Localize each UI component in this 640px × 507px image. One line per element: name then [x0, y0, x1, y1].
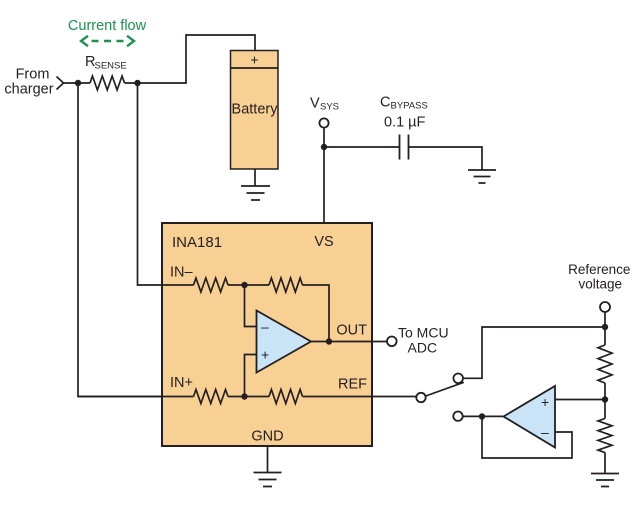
- ground capacitor: [468, 170, 496, 183]
- svg-text:IN–: IN–: [170, 265, 194, 281]
- svg-text:charger: charger: [4, 82, 53, 98]
- svg-text:INA181: INA181: [172, 234, 222, 251]
- ground INA181: [254, 473, 282, 487]
- svg-text:BYPASS: BYPASS: [391, 101, 428, 112]
- capacitor CBYPASS: [400, 135, 409, 160]
- resistor divider top: [598, 345, 612, 383]
- wire noninverting input: [245, 355, 257, 397]
- wire feedback to OUT: [303, 285, 330, 342]
- battery B1: [231, 51, 279, 170]
- wire ref terminal down: [604, 312, 606, 345]
- switch terminal top: [453, 374, 463, 384]
- svg-text:VS: VS: [314, 234, 333, 250]
- terminal VSYS: [319, 118, 328, 127]
- svg-text:+: +: [261, 347, 269, 363]
- node OUT junction: [326, 338, 332, 344]
- wire REF line: [78, 396, 417, 398]
- node divider top junction: [602, 324, 608, 330]
- wire VSYS to capacitor: [324, 146, 400, 148]
- svg-text:–: –: [541, 424, 549, 440]
- svg-text:From: From: [16, 67, 50, 83]
- svg-text:C: C: [380, 95, 390, 111]
- resistor RSENSE: [90, 76, 125, 90]
- resistor divider bottom: [598, 419, 612, 453]
- wire inverting input: [245, 285, 257, 327]
- wire left junction down to IN+: [78, 83, 162, 397]
- wire GND pin to ground: [267, 446, 269, 473]
- terminal Reference voltage: [600, 302, 610, 312]
- current flow dashed arrow: [81, 36, 134, 46]
- ground battery: [241, 186, 270, 200]
- wire battery to ground: [254, 169, 256, 186]
- svg-text:IN+: IN+: [170, 375, 193, 391]
- wire capacitor to ground: [409, 147, 483, 171]
- op-amp block INA181: [162, 223, 372, 446]
- svg-text:–: –: [261, 319, 269, 335]
- node junction right: [134, 80, 140, 86]
- resistor input IN-: [194, 278, 228, 292]
- resistor input IN+: [194, 390, 228, 404]
- svg-text:voltage: voltage: [579, 277, 623, 292]
- resistor feedback top: [269, 278, 303, 292]
- node VSYS junction: [321, 144, 327, 150]
- wire main rail to battery: [64, 35, 256, 83]
- svg-text:0.1 µF: 0.1 µF: [384, 115, 426, 131]
- switch terminal REF: [416, 393, 425, 402]
- svg-text:GND: GND: [251, 429, 283, 445]
- wire buffer + input: [555, 399, 605, 401]
- wire divider to ground: [604, 453, 606, 474]
- wire switch top to divider: [463, 327, 605, 378]
- wire right junction down to IN-: [138, 83, 163, 285]
- svg-text:Battery: Battery: [232, 102, 279, 118]
- svg-text:V: V: [310, 96, 320, 112]
- ground divider: [591, 474, 619, 487]
- svg-text:REF: REF: [338, 377, 367, 393]
- wire IN- into box: [162, 284, 194, 286]
- terminal To MCU ADC: [387, 337, 397, 347]
- svg-text:SENSE: SENSE: [95, 61, 127, 72]
- wire buffer output: [463, 415, 504, 417]
- resistor REF: [269, 390, 303, 404]
- node divider mid junction: [602, 396, 608, 402]
- svg-text:+: +: [541, 394, 549, 410]
- svg-text:To MCU: To MCU: [398, 325, 449, 341]
- node junction left: [75, 80, 81, 86]
- wire to feedback resistor: [228, 284, 269, 286]
- wire buffer feedback: [482, 417, 572, 459]
- input chevron from charger: [57, 77, 64, 90]
- switch terminal bottom: [453, 412, 462, 421]
- op-amp U1: [257, 311, 312, 373]
- node IN- junction: [241, 282, 247, 288]
- svg-text:Reference: Reference: [568, 262, 630, 277]
- svg-text:OUT: OUT: [336, 323, 367, 339]
- svg-text:+: +: [250, 52, 258, 68]
- wire divider middle: [604, 383, 606, 419]
- svg-text:Current flow: Current flow: [68, 18, 147, 34]
- wire OUT: [311, 341, 387, 343]
- node buffer output junction: [479, 413, 485, 419]
- node IN+ junction: [241, 393, 247, 399]
- wire VSYS to VS pin: [323, 128, 325, 223]
- switch blade: [426, 382, 464, 396]
- svg-text:SYS: SYS: [320, 102, 339, 113]
- op-amp U2 buffer: [504, 386, 556, 448]
- svg-text:ADC: ADC: [408, 340, 438, 356]
